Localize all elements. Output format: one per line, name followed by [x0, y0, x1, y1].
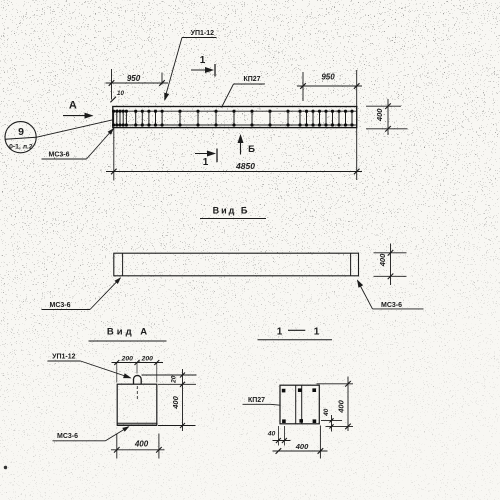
svg-text:400: 400	[375, 108, 384, 122]
svg-text:200: 200	[141, 355, 154, 362]
svg-text:УП1-12: УП1-12	[52, 354, 76, 361]
svg-text:1: 1	[200, 55, 206, 66]
svg-text:1: 1	[203, 157, 209, 168]
svg-text:КП27: КП27	[243, 76, 260, 83]
svg-text:1: 1	[314, 327, 320, 338]
svg-text:400: 400	[337, 399, 346, 413]
svg-text:1: 1	[277, 327, 283, 338]
svg-text:МС3-6: МС3-6	[49, 302, 70, 309]
svg-text:Вид А: Вид А	[107, 327, 150, 338]
svg-text:950: 950	[321, 73, 335, 82]
svg-text:Б: Б	[248, 144, 255, 155]
svg-text:10: 10	[117, 90, 124, 97]
svg-text:400: 400	[171, 395, 180, 409]
svg-text:Вид Б: Вид Б	[213, 206, 250, 216]
svg-text:950: 950	[127, 74, 141, 83]
svg-text:МС3-6: МС3-6	[48, 152, 69, 159]
svg-text:400: 400	[378, 253, 387, 267]
svg-text:0-1, л.2: 0-1, л.2	[9, 143, 33, 150]
svg-text:200: 200	[121, 355, 134, 362]
svg-text:20: 20	[171, 375, 178, 384]
svg-text:400: 400	[295, 442, 309, 451]
svg-text:А: А	[69, 100, 77, 112]
svg-text:УП1-12: УП1-12	[191, 30, 215, 37]
svg-text:МС3-6: МС3-6	[57, 433, 78, 440]
svg-text:9: 9	[18, 126, 24, 138]
svg-text:МС3-6: МС3-6	[381, 302, 402, 309]
svg-text:400: 400	[134, 440, 149, 449]
svg-text:4850: 4850	[235, 161, 255, 171]
svg-text:КП27: КП27	[248, 397, 265, 404]
svg-text:,: ,	[138, 354, 140, 363]
svg-text:40: 40	[267, 431, 276, 438]
svg-text:40: 40	[323, 408, 330, 417]
